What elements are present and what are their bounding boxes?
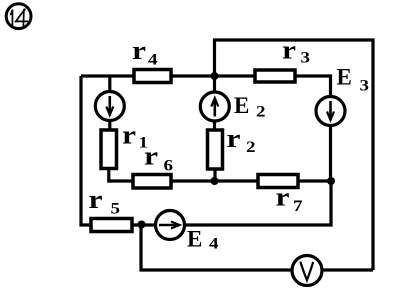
wire r7 to node C [298, 179, 331, 182]
node C [327, 177, 335, 185]
label r1 [122, 121, 148, 152]
svg-text:5: 5 [111, 201, 121, 218]
wire top row left [81, 74, 134, 77]
wire E4 to node D [132, 223, 156, 226]
svg-text:r: r [132, 36, 146, 65]
emf E3 [316, 97, 345, 126]
svg-text:E: E [337, 65, 352, 90]
svg-text:4: 4 [209, 236, 219, 253]
label r4 [132, 36, 158, 69]
svg-text:7: 7 [293, 198, 303, 215]
wire bottom right [323, 268, 373, 271]
wire left vertical [81, 76, 91, 225]
emf E2 [200, 76, 229, 130]
wire top loop [215, 40, 374, 270]
wire E3 to node C [329, 126, 332, 182]
resistor r4 [134, 70, 171, 83]
wire node C down to E4 row [185, 181, 331, 225]
label r2 [227, 124, 256, 156]
svg-text:r: r [89, 185, 103, 214]
resistor r7 [258, 175, 298, 188]
resistor r5 [91, 219, 132, 232]
label r5 [89, 185, 121, 218]
voltmeter V [292, 256, 322, 286]
wire node B to r7 [215, 179, 259, 182]
label E4 [187, 227, 219, 253]
svg-text:3: 3 [360, 78, 370, 95]
wire bottom left [141, 225, 291, 270]
svg-text:r: r [282, 36, 296, 65]
current source E1 (unlabeled) [95, 76, 124, 130]
label E2 [234, 93, 266, 121]
svg-text:E: E [234, 93, 249, 118]
wire r6 to node B [171, 179, 215, 182]
svg-text:r: r [276, 183, 290, 212]
node A [211, 72, 219, 80]
svg-text:2: 2 [246, 139, 256, 156]
wire r2 to node B [213, 169, 216, 181]
svg-text:3: 3 [301, 50, 311, 67]
resistor r1 [101, 130, 117, 169]
resistor r3 [255, 70, 295, 82]
label r7 [276, 183, 303, 216]
label r3 [282, 36, 310, 67]
emf E4 [156, 211, 185, 240]
svg-text:r: r [227, 124, 241, 153]
wire r3 to E3 [295, 76, 331, 97]
label r6 [144, 142, 173, 175]
resistor r6 [133, 175, 171, 189]
resistor r2 [208, 130, 223, 169]
wire r1 to r6 [109, 169, 133, 182]
svg-text:4: 4 [148, 52, 158, 69]
svg-text:r: r [144, 142, 158, 171]
figure number 14 [6, 4, 31, 29]
svg-text:2: 2 [256, 104, 266, 121]
label E3 [337, 65, 370, 95]
svg-text:E: E [187, 227, 202, 252]
node D [138, 221, 146, 229]
wire r4 to r3 [171, 74, 255, 77]
svg-text:6: 6 [164, 158, 174, 175]
svg-text:r: r [122, 121, 136, 150]
node B [211, 177, 219, 185]
